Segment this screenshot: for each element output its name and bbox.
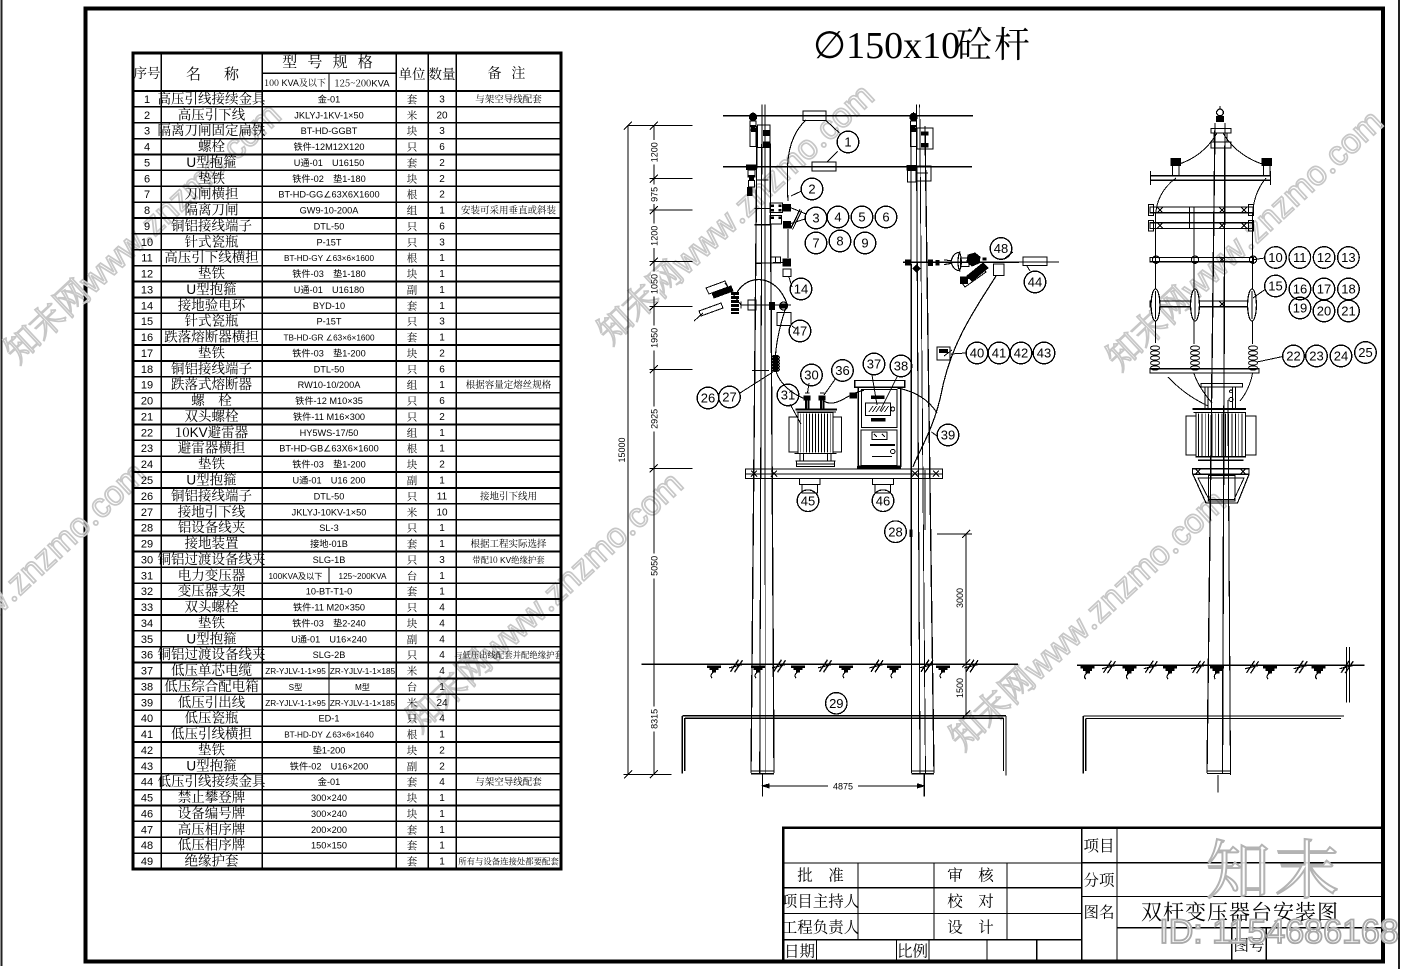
svg-text:台: 台 — [407, 568, 418, 583]
svg-text:29: 29 — [829, 696, 843, 711]
svg-text:16: 16 — [1293, 282, 1307, 297]
svg-text:3000: 3000 — [955, 588, 965, 608]
svg-text:1: 1 — [144, 94, 150, 106]
svg-text:套: 套 — [407, 584, 418, 599]
svg-text:3: 3 — [144, 126, 150, 138]
svg-text:JKLYJ-1KV-1×50: JKLYJ-1KV-1×50 — [294, 110, 364, 120]
svg-text:块: 块 — [407, 791, 418, 806]
svg-text:41: 41 — [992, 346, 1006, 361]
svg-text:副: 副 — [407, 632, 418, 647]
svg-text:铁件-03 垫1-200: 铁件-03 垫1-200 — [292, 459, 366, 470]
svg-text:3: 3 — [812, 211, 819, 226]
svg-text:28: 28 — [141, 523, 153, 535]
svg-text:26: 26 — [701, 391, 715, 406]
svg-text:1050: 1050 — [650, 274, 660, 294]
svg-text:2925: 2925 — [650, 409, 660, 429]
svg-text:ID: 1154686168: ID: 1154686168 — [1159, 913, 1398, 951]
svg-text:GW9-10-200A: GW9-10-200A — [300, 206, 360, 216]
svg-text:铁件-12M12X120: 铁件-12M12X120 — [294, 141, 365, 152]
svg-text:知末: 知末 — [1206, 820, 1344, 912]
svg-text:知末网www.znzmo.com: 知末网www.znzmo.com — [0, 448, 155, 731]
svg-text:单位: 单位 — [399, 63, 426, 83]
svg-text:所有与设备连接处都要配套: 所有与设备连接处都要配套 — [458, 856, 559, 868]
svg-text:4: 4 — [439, 603, 445, 614]
svg-text:套: 套 — [407, 298, 418, 313]
svg-text:SLG-1B: SLG-1B — [313, 555, 346, 565]
svg-text:1: 1 — [439, 476, 445, 487]
svg-text:根: 根 — [407, 727, 418, 742]
svg-text:43: 43 — [1037, 346, 1051, 361]
svg-text:JKLYJ-10KV-1×50: JKLYJ-10KV-1×50 — [292, 507, 367, 517]
svg-text:24: 24 — [1334, 349, 1348, 364]
svg-text:项目: 项目 — [1083, 834, 1114, 856]
svg-text:副: 副 — [407, 282, 418, 297]
svg-text:12: 12 — [141, 269, 153, 281]
svg-text:6: 6 — [439, 221, 445, 232]
svg-text:37: 37 — [867, 357, 881, 372]
svg-text:1: 1 — [439, 444, 445, 455]
svg-text:39: 39 — [141, 697, 153, 709]
svg-text:37: 37 — [141, 666, 153, 678]
svg-text:BYD-10: BYD-10 — [313, 301, 345, 311]
svg-text:TB-HD-GR ∠63×6×1600: TB-HD-GR ∠63×6×1600 — [283, 334, 375, 343]
svg-text:46: 46 — [141, 808, 153, 820]
svg-text:∅150x10: ∅150x10 — [813, 25, 960, 67]
svg-text:根据工程实际选择: 根据工程实际选择 — [470, 536, 547, 550]
svg-text:与低压出线配套并配绝缘护套: 与低压出线配套并配绝缘护套 — [454, 649, 563, 661]
svg-text:23: 23 — [1309, 349, 1323, 364]
svg-text:BT-HD-GG∠63X6X1600: BT-HD-GG∠63X6X1600 — [278, 190, 379, 200]
svg-text:7: 7 — [144, 189, 150, 201]
svg-text:10: 10 — [1268, 250, 1282, 265]
svg-text:套: 套 — [407, 330, 418, 345]
svg-text:3: 3 — [439, 317, 445, 328]
svg-text:1: 1 — [439, 206, 445, 217]
svg-text:3: 3 — [439, 126, 445, 137]
svg-text:11: 11 — [437, 491, 448, 502]
svg-text:铁件-03 垫1-200: 铁件-03 垫1-200 — [292, 347, 366, 358]
svg-text:2: 2 — [439, 745, 445, 756]
svg-text:只: 只 — [407, 600, 418, 615]
svg-text:校 对: 校 对 — [947, 890, 994, 912]
svg-text:10: 10 — [436, 507, 448, 518]
svg-text:1: 1 — [439, 380, 445, 391]
svg-text:数量: 数量 — [429, 63, 456, 83]
svg-text:组: 组 — [407, 425, 418, 440]
svg-text:P-15T: P-15T — [316, 237, 341, 247]
svg-text:2: 2 — [439, 190, 445, 201]
svg-text:米: 米 — [407, 108, 418, 123]
svg-text:套: 套 — [407, 822, 418, 837]
svg-text:1: 1 — [439, 333, 445, 344]
svg-text:34: 34 — [141, 618, 153, 630]
svg-text:S型: S型 — [289, 683, 303, 692]
svg-text:砼杆: 砼杆 — [956, 17, 1032, 68]
svg-text:10: 10 — [141, 237, 153, 249]
svg-text:DTL-50: DTL-50 — [314, 364, 345, 374]
svg-text:工程负责人: 工程负责人 — [782, 916, 860, 938]
svg-text:100 KVA及以下: 100 KVA及以下 — [264, 76, 326, 89]
svg-text:只: 只 — [407, 711, 418, 726]
svg-text:图名: 图名 — [1083, 901, 1114, 923]
svg-text:台: 台 — [407, 679, 418, 694]
svg-text:只: 只 — [407, 409, 418, 424]
svg-text:30: 30 — [141, 554, 153, 566]
svg-text:21: 21 — [141, 411, 153, 423]
svg-text:设 计: 设 计 — [947, 916, 994, 938]
svg-text:1200: 1200 — [650, 226, 660, 246]
svg-text:20: 20 — [141, 396, 153, 408]
svg-text:与架空导线配套: 与架空导线配套 — [475, 91, 542, 105]
svg-text:2: 2 — [439, 412, 445, 423]
svg-text:1: 1 — [439, 809, 445, 820]
svg-text:块: 块 — [407, 806, 418, 821]
svg-text:7: 7 — [812, 236, 819, 251]
svg-text:1: 1 — [439, 523, 445, 534]
svg-text:16: 16 — [141, 332, 153, 344]
svg-text:200×200: 200×200 — [311, 825, 347, 835]
svg-text:铁件-11 M20×350: 铁件-11 M20×350 — [293, 602, 365, 613]
svg-text:1: 1 — [439, 857, 445, 868]
svg-text:4: 4 — [439, 666, 445, 677]
svg-text:1: 1 — [439, 841, 445, 852]
svg-text:4: 4 — [144, 142, 150, 154]
svg-text:4: 4 — [439, 634, 445, 645]
svg-text:铁件-03 垫1-180: 铁件-03 垫1-180 — [292, 268, 366, 279]
svg-text:块: 块 — [407, 267, 418, 282]
svg-text:1: 1 — [439, 571, 445, 582]
svg-text:6: 6 — [144, 173, 150, 185]
svg-text:日期: 日期 — [784, 940, 815, 962]
svg-text:分项: 分项 — [1083, 869, 1115, 891]
svg-text:DTL-50: DTL-50 — [314, 221, 345, 231]
svg-text:U通-01 U16150: U通-01 U16150 — [294, 158, 364, 168]
svg-text:套: 套 — [407, 854, 418, 869]
svg-text:2: 2 — [439, 761, 445, 772]
svg-text:根: 根 — [407, 251, 418, 266]
svg-text:4: 4 — [439, 777, 445, 788]
svg-text:只: 只 — [407, 235, 418, 250]
svg-text:1: 1 — [439, 825, 445, 836]
svg-text:接地引下线用: 接地引下线用 — [480, 488, 537, 502]
svg-text:48: 48 — [994, 241, 1008, 256]
svg-text:13: 13 — [1341, 250, 1355, 265]
svg-text:26: 26 — [141, 491, 153, 503]
svg-text:13: 13 — [141, 284, 153, 296]
svg-text:45: 45 — [801, 493, 815, 508]
svg-text:8315: 8315 — [650, 709, 660, 729]
svg-text:4: 4 — [834, 210, 841, 225]
svg-text:只: 只 — [407, 314, 418, 329]
svg-text:1: 1 — [439, 301, 445, 312]
svg-text:1: 1 — [439, 730, 445, 741]
svg-text:副: 副 — [407, 473, 418, 488]
svg-text:套: 套 — [407, 155, 418, 170]
svg-text:只: 只 — [407, 362, 418, 377]
svg-text:15: 15 — [141, 316, 153, 328]
svg-text:只: 只 — [407, 219, 418, 234]
svg-text:4: 4 — [439, 618, 445, 629]
svg-text:ZR-YJLV-1-1×95: ZR-YJLV-1-1×95 — [265, 667, 326, 676]
svg-text:2: 2 — [144, 110, 150, 122]
svg-text:备 注: 备 注 — [488, 63, 529, 83]
svg-text:5: 5 — [144, 157, 150, 169]
svg-text:1: 1 — [439, 587, 445, 598]
svg-text:铁件-02 垫1-180: 铁件-02 垫1-180 — [292, 173, 366, 184]
svg-text:M型: M型 — [355, 683, 370, 692]
svg-text:6: 6 — [882, 210, 889, 225]
svg-text:U通-01 U16 200: U通-01 U16 200 — [292, 476, 365, 486]
svg-text:审 核: 审 核 — [947, 864, 994, 886]
svg-text:29: 29 — [141, 539, 153, 551]
svg-text:36: 36 — [141, 650, 153, 662]
svg-text:只: 只 — [407, 489, 418, 504]
svg-text:BT-HD-DY ∠63×6×1640: BT-HD-DY ∠63×6×1640 — [284, 731, 374, 740]
svg-text:15: 15 — [1268, 279, 1282, 294]
svg-text:根: 根 — [407, 187, 418, 202]
svg-text:43: 43 — [141, 761, 153, 773]
svg-text:38: 38 — [141, 681, 153, 693]
svg-text:块: 块 — [407, 171, 418, 186]
svg-text:BT-HD-GB∠63X6×1600: BT-HD-GB∠63X6×1600 — [279, 444, 378, 454]
svg-text:1: 1 — [439, 269, 445, 280]
svg-text:块: 块 — [407, 346, 418, 361]
svg-text:序号: 序号 — [134, 62, 161, 82]
svg-text:BT-HD-GGBT: BT-HD-GGBT — [301, 126, 358, 136]
svg-text:125~200KVA: 125~200KVA — [339, 572, 387, 581]
svg-text:ED-1: ED-1 — [319, 714, 340, 724]
svg-text:套: 套 — [407, 92, 418, 107]
svg-text:38: 38 — [894, 359, 908, 374]
svg-text:只: 只 — [407, 521, 418, 536]
svg-text:1200: 1200 — [650, 142, 660, 162]
svg-text:项目主持人: 项目主持人 — [782, 890, 860, 912]
svg-text:300×240: 300×240 — [311, 809, 347, 819]
svg-text:18: 18 — [141, 364, 153, 376]
svg-text:米: 米 — [407, 664, 418, 679]
svg-text:SL-3: SL-3 — [319, 523, 338, 533]
svg-text:5: 5 — [858, 210, 865, 225]
svg-text:2: 2 — [439, 174, 445, 185]
svg-text:安装可采用垂直或斜装: 安装可采用垂直或斜装 — [461, 203, 557, 217]
svg-text:39: 39 — [941, 428, 955, 443]
svg-text:3: 3 — [439, 237, 445, 248]
svg-text:20: 20 — [1317, 304, 1331, 319]
svg-text:P-15T: P-15T — [316, 317, 341, 327]
svg-text:铁件-02 U16×200: 铁件-02 U16×200 — [290, 760, 368, 771]
svg-text:42: 42 — [1014, 346, 1028, 361]
svg-text:知末网www.znzmo.com: 知末网www.znzmo.com — [1093, 96, 1391, 379]
svg-text:14: 14 — [141, 300, 153, 312]
svg-text:45: 45 — [141, 793, 153, 805]
svg-text:35: 35 — [141, 634, 153, 646]
svg-text:22: 22 — [1286, 349, 1300, 364]
svg-text:名: 名 — [186, 63, 201, 84]
svg-text:41: 41 — [141, 729, 153, 741]
svg-text:1950: 1950 — [650, 328, 660, 348]
svg-text:9: 9 — [861, 236, 868, 251]
svg-text:22: 22 — [141, 427, 153, 439]
svg-text:24: 24 — [141, 459, 153, 471]
svg-text:绝缘护套: 绝缘护套 — [185, 850, 239, 870]
svg-text:17: 17 — [141, 348, 153, 360]
svg-text:接地-01B: 接地-01B — [310, 538, 348, 549]
svg-text:23: 23 — [141, 443, 153, 455]
svg-text:975: 975 — [650, 187, 660, 202]
svg-text:块: 块 — [407, 743, 418, 758]
svg-text:根: 根 — [407, 441, 418, 456]
svg-text:47: 47 — [141, 824, 153, 836]
svg-text:47: 47 — [793, 324, 807, 339]
svg-text:1: 1 — [439, 285, 445, 296]
svg-text:2: 2 — [439, 158, 445, 169]
svg-text:40: 40 — [141, 713, 153, 725]
svg-text:19: 19 — [141, 380, 153, 392]
svg-text:带配10 KV绝缘护套: 带配10 KV绝缘护套 — [472, 554, 545, 566]
svg-text:40: 40 — [970, 346, 984, 361]
svg-text:称: 称 — [224, 63, 240, 84]
svg-text:44: 44 — [141, 777, 153, 789]
svg-text:125~200KVA: 125~200KVA — [334, 76, 390, 90]
svg-text:铁件-03 垫2-240: 铁件-03 垫2-240 — [292, 617, 366, 628]
svg-text:组: 组 — [407, 378, 418, 393]
svg-text:块: 块 — [407, 457, 418, 472]
svg-text:块: 块 — [407, 124, 418, 139]
svg-text:U通-01 U16×240: U通-01 U16×240 — [291, 634, 367, 644]
svg-text:BT-HD-GY ∠63×6×1600: BT-HD-GY ∠63×6×1600 — [284, 254, 374, 263]
svg-text:14: 14 — [794, 282, 808, 297]
svg-text:33: 33 — [141, 602, 153, 614]
svg-text:27: 27 — [722, 390, 736, 405]
svg-text:1: 1 — [844, 135, 851, 150]
svg-text:ZR-YJLV-1-1×185: ZR-YJLV-1-1×185 — [330, 699, 396, 708]
svg-text:组: 组 — [407, 203, 418, 218]
svg-text:15000: 15000 — [617, 437, 627, 462]
svg-text:6: 6 — [439, 364, 445, 375]
svg-text:32: 32 — [141, 586, 153, 598]
svg-text:型 号 规 格: 型 号 规 格 — [282, 51, 376, 72]
svg-text:17: 17 — [1317, 282, 1331, 297]
svg-text:只: 只 — [407, 140, 418, 155]
svg-text:只: 只 — [407, 648, 418, 663]
svg-text:2: 2 — [808, 182, 815, 197]
svg-text:2: 2 — [439, 348, 445, 359]
svg-text:比例: 比例 — [897, 940, 928, 962]
svg-text:10-BT-T1-0: 10-BT-T1-0 — [306, 587, 352, 597]
svg-text:6: 6 — [439, 396, 445, 407]
svg-text:12: 12 — [1317, 250, 1331, 265]
svg-text:米: 米 — [407, 505, 418, 520]
svg-text:套: 套 — [407, 537, 418, 552]
svg-text:金-01: 金-01 — [318, 93, 340, 104]
svg-text:36: 36 — [835, 363, 849, 378]
svg-text:1500: 1500 — [955, 678, 965, 698]
svg-text:25: 25 — [1358, 345, 1372, 360]
svg-text:11: 11 — [1293, 250, 1307, 265]
svg-text:垫1-200: 垫1-200 — [313, 744, 346, 755]
svg-text:25: 25 — [141, 475, 153, 487]
svg-text:HY5WS-17/50: HY5WS-17/50 — [300, 428, 359, 438]
svg-text:SLG-2B: SLG-2B — [313, 650, 346, 660]
svg-text:只: 只 — [407, 394, 418, 409]
svg-text:块: 块 — [407, 616, 418, 631]
svg-text:44: 44 — [1028, 275, 1042, 290]
svg-text:铁件-12 M10×35: 铁件-12 M10×35 — [295, 395, 363, 406]
svg-text:4875: 4875 — [833, 782, 853, 792]
svg-text:27: 27 — [141, 507, 153, 519]
svg-text:21: 21 — [1341, 304, 1355, 319]
svg-text:49: 49 — [141, 856, 153, 868]
svg-text:20: 20 — [436, 110, 448, 121]
svg-text:铁件-11 M16×300: 铁件-11 M16×300 — [293, 411, 365, 422]
svg-text:8: 8 — [144, 205, 150, 217]
svg-text:套: 套 — [407, 775, 418, 790]
svg-text:只: 只 — [407, 552, 418, 567]
svg-text:3: 3 — [439, 94, 445, 105]
svg-text:1: 1 — [439, 793, 445, 804]
svg-text:11: 11 — [141, 253, 152, 265]
svg-text:U通-01 U16180: U通-01 U16180 — [294, 285, 364, 295]
svg-text:9: 9 — [144, 221, 150, 233]
svg-text:8: 8 — [836, 234, 843, 249]
svg-text:4: 4 — [439, 714, 445, 725]
svg-text:19: 19 — [1293, 301, 1307, 316]
svg-text:48: 48 — [141, 840, 153, 852]
svg-text:与架空导线配套: 与架空导线配套 — [475, 774, 542, 788]
svg-text:批 准: 批 准 — [797, 864, 844, 886]
svg-text:RW10-10/200A: RW10-10/200A — [298, 380, 362, 390]
svg-text:ZR-YJLV-1-1×95: ZR-YJLV-1-1×95 — [265, 699, 326, 708]
svg-text:24: 24 — [436, 698, 448, 709]
svg-text:6: 6 — [439, 142, 445, 153]
svg-text:46: 46 — [876, 493, 890, 508]
svg-text:100KVA及以下: 100KVA及以下 — [269, 572, 323, 581]
svg-text:31: 31 — [781, 388, 795, 403]
svg-text:42: 42 — [141, 745, 153, 757]
svg-text:套: 套 — [407, 838, 418, 853]
svg-text:副: 副 — [407, 759, 418, 774]
svg-text:30: 30 — [804, 368, 818, 383]
svg-text:米: 米 — [407, 695, 418, 710]
svg-text:ZR-YJLV-1-1×185: ZR-YJLV-1-1×185 — [330, 667, 396, 676]
svg-text:根据容量定熔丝规格: 根据容量定熔丝规格 — [466, 377, 552, 391]
svg-text:31: 31 — [141, 570, 153, 582]
svg-text:5050: 5050 — [650, 556, 660, 576]
svg-text:28: 28 — [888, 524, 902, 539]
svg-text:金-01: 金-01 — [318, 776, 340, 787]
svg-text:4: 4 — [439, 650, 445, 661]
svg-text:3: 3 — [439, 555, 445, 566]
svg-text:150×150: 150×150 — [311, 841, 347, 851]
svg-text:1: 1 — [439, 253, 445, 264]
svg-text:1: 1 — [439, 539, 445, 550]
svg-text:300×240: 300×240 — [311, 793, 347, 803]
svg-text:1: 1 — [439, 682, 445, 693]
svg-text:DTL-50: DTL-50 — [314, 491, 345, 501]
svg-text:1: 1 — [439, 428, 445, 439]
svg-text:18: 18 — [1341, 282, 1355, 297]
svg-text:2: 2 — [439, 460, 445, 471]
